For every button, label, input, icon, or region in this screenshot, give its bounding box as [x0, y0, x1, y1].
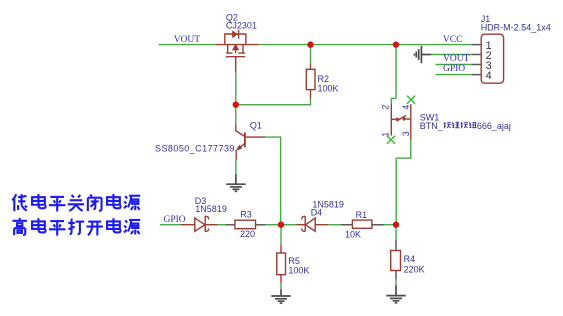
svg-text:100K: 100K	[318, 84, 339, 94]
ground under R5	[271, 289, 290, 303]
svg-text:1N5819: 1N5819	[195, 204, 227, 214]
wire Q1 base to node	[266, 137, 281, 225]
annotation text line 1: 低电平关闭电源	[12, 194, 140, 211]
wire node to D4	[281, 224, 297, 226]
svg-text:666_ajaj: 666_ajaj	[477, 121, 511, 131]
wire GPIO to D3	[160, 224, 181, 226]
wire SW1 branch from rail	[391, 45, 396, 105]
svg-text:BTN_: BTN_	[420, 121, 444, 131]
svg-text:1: 1	[380, 132, 390, 137]
transistor Q2	[216, 30, 259, 73]
svg-text:HDR-M-2.54_1x4: HDR-M-2.54_1x4	[481, 22, 551, 32]
svg-text:4: 4	[401, 105, 411, 110]
resistor R5	[280, 244, 282, 283]
svg-text:R4: R4	[404, 254, 416, 264]
svg-text:GPIO: GPIO	[164, 215, 186, 225]
transistor Q1	[236, 124, 266, 160]
connector J1	[481, 34, 503, 83]
svg-text:VOUT: VOUT	[174, 35, 201, 45]
wire D4 to R1	[328, 224, 341, 226]
svg-text:VCC: VCC	[443, 35, 463, 45]
wire Q1 emitter to ground	[235, 160, 237, 174]
wire R5 to ground	[280, 283, 282, 289]
svg-text:2: 2	[380, 105, 390, 110]
no-connect X pin4	[407, 96, 415, 104]
switch SW1	[391, 104, 411, 140]
svg-text:100K: 100K	[288, 266, 309, 276]
junction node base/R3/R5	[278, 222, 284, 228]
wire R1 to node	[384, 224, 397, 226]
resistor R3	[226, 224, 266, 226]
junction node on rail at R2	[307, 41, 313, 47]
wire VOUT rail left	[159, 44, 216, 46]
wire node to R4	[395, 225, 397, 240]
diode D3	[181, 216, 218, 232]
annotation text line 2: 高电平打开电源	[12, 218, 140, 236]
svg-text:Q1: Q1	[250, 121, 262, 131]
junction node R1/R4/SW	[393, 222, 399, 228]
resistor R4	[395, 239, 397, 279]
resistor R2	[310, 64, 312, 99]
wire VOUT rail right	[259, 44, 472, 46]
junction node gate/R2	[233, 102, 239, 108]
wire Q2 gate down to Q1	[235, 72, 237, 124]
svg-text:R1: R1	[356, 210, 368, 220]
svg-text:CJ2301: CJ2301	[226, 21, 257, 31]
diode D4	[297, 216, 329, 232]
ground under Q1	[226, 174, 245, 191]
svg-text:VOUT: VOUT	[443, 54, 470, 64]
wire J1 pin3	[436, 64, 472, 66]
wire R4 to ground	[395, 279, 397, 285]
svg-text:220: 220	[240, 229, 255, 239]
wire J1 pin2	[431, 54, 471, 56]
resistor R1	[341, 224, 384, 226]
wire J1 pin4	[436, 74, 472, 76]
wire R3 to node	[265, 224, 281, 226]
svg-text:220K: 220K	[404, 265, 425, 275]
ground under R4	[386, 285, 405, 303]
ground at J1 pin2 (rotated)	[414, 46, 431, 64]
wire node to R5	[280, 225, 282, 245]
junction node on rail at SW branch	[393, 41, 399, 47]
J1 pin stubs	[472, 45, 482, 75]
svg-text:10K: 10K	[345, 230, 361, 240]
svg-text:SS8050_C177739: SS8050_C177739	[155, 143, 235, 153]
svg-text:D4: D4	[311, 207, 323, 217]
wire R2 top branch	[310, 45, 312, 64]
svg-text:R3: R3	[240, 210, 252, 220]
svg-text:3: 3	[401, 131, 411, 136]
svg-text:4: 4	[486, 70, 492, 82]
wire R2 bottom to gate node	[236, 99, 311, 105]
svg-text:GPIO: GPIO	[443, 64, 465, 74]
wire SW1 pin3 down to node	[396, 140, 411, 225]
wire D3 to R3	[218, 224, 226, 226]
no-connect X pin1	[387, 136, 395, 144]
svg-text:R5: R5	[288, 256, 300, 266]
SW1 label chinese: 按键按钮	[444, 122, 477, 129]
